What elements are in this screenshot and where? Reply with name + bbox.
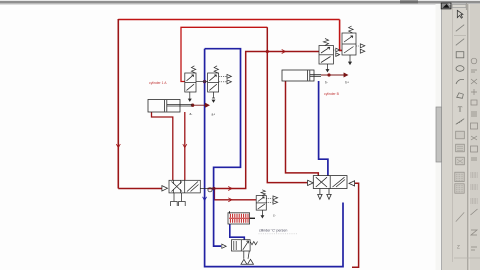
svg-text:a-: a- [190, 112, 193, 116]
svg-text:c-: c- [273, 214, 276, 218]
cylinder B marker line [321, 73, 348, 77]
wire blue long left [205, 49, 343, 267]
svg-text:b-: b- [325, 81, 328, 85]
counter display [228, 211, 255, 224]
valve c- (3/2 roller) [256, 190, 277, 218]
valve b+ (3/2 roller) [342, 26, 365, 64]
toolbar grip lozenge [452, 4, 466, 7]
arrow red chevron left riser [116, 144, 120, 148]
right column icons [471, 58, 478, 250]
valve V2 5/2 [308, 176, 355, 200]
toolbar icon dots1 [455, 172, 464, 181]
scrollbar border [441, 4, 443, 270]
wire blue cylinder B rod port [319, 81, 328, 176]
valve a- (3/2 roller) [185, 66, 208, 101]
toolbar background [442, 4, 480, 270]
arrow red chevron supply rail [282, 50, 286, 54]
scrollbar top button [441, 3, 451, 9]
wire red mid riser [267, 27, 307, 182]
wire red cylinder A rod port [184, 112, 186, 180]
toolbar icon arc [456, 79, 464, 84]
wire red supply top horizontal [118, 19, 339, 21]
wire blue top link [205, 49, 241, 246]
toolbar icon grid1 [456, 131, 465, 139]
toolbar icon rect [456, 52, 464, 58]
toolbar icon stamp [456, 157, 465, 165]
wire red riser x245 [208, 52, 319, 189]
button valve (3/2 manual) [222, 240, 258, 265]
top gray bar [0, 1, 480, 4]
svg-text:cilinder 'C' persen: cilinder 'C' persen [259, 229, 287, 233]
toolbar icon dots2 [455, 184, 464, 193]
junction dot cyl A rod marker [191, 104, 194, 107]
toolbar icon cursor [457, 10, 463, 18]
valve a+ (3/2 roller) [208, 66, 232, 102]
toolbar divider [454, 35, 466, 37]
svg-text:z: z [457, 244, 460, 251]
wire red branch to valve c- [214, 189, 256, 200]
arrow red chevron to c- [228, 198, 232, 202]
toolbar icon line2 [456, 39, 464, 46]
cylinder A [148, 100, 193, 113]
junction dot rail cross [266, 50, 269, 53]
svg-text:b+: b+ [345, 81, 349, 85]
arrow red chevron valve1 out [228, 187, 232, 191]
wire red right pilot riser [352, 183, 359, 267]
junction dot valve1 out cross [212, 187, 215, 190]
wire red cylinder B cap port [286, 81, 319, 176]
cylinder A marker line [193, 103, 209, 107]
valve b- (3/2 roller) [319, 39, 340, 72]
wire blue counter to button valve [230, 224, 245, 240]
scrollbar thumb [436, 107, 442, 162]
junction dot valve a- output [203, 80, 206, 83]
arrow blue chevron long blue [203, 197, 207, 201]
cylinder B [282, 70, 321, 81]
wire red to valve V1 pilot [118, 188, 162, 190]
svg-text:T: T [458, 105, 463, 114]
valve V1 5/2 [162, 180, 212, 206]
svg-text:cylinder B: cylinder B [324, 92, 340, 96]
svg-text:a+: a+ [212, 113, 216, 117]
toolbar icon grid2 [456, 144, 465, 152]
toolbar icon polygon [457, 93, 464, 99]
toolbar icon diag [456, 212, 464, 221]
toolbar bottom shadow [454, 257, 480, 259]
wire red left riser [117, 19, 119, 189]
svg-text:cylinder 1 A: cylinder 1 A [149, 81, 167, 85]
toolbar icon line1 [456, 25, 464, 32]
toolbar icon ellipse [456, 66, 464, 72]
scrollbar area [436, 4, 443, 270]
toolbar icon ruler [456, 119, 464, 125]
arrow red chevron cyl A rod wire [183, 144, 187, 148]
junction dot cyl B marker [327, 73, 330, 76]
wire red drop to valve b+ [340, 20, 342, 51]
wire red cylinder A cap port [152, 112, 173, 180]
wire red second rail [181, 27, 267, 81]
